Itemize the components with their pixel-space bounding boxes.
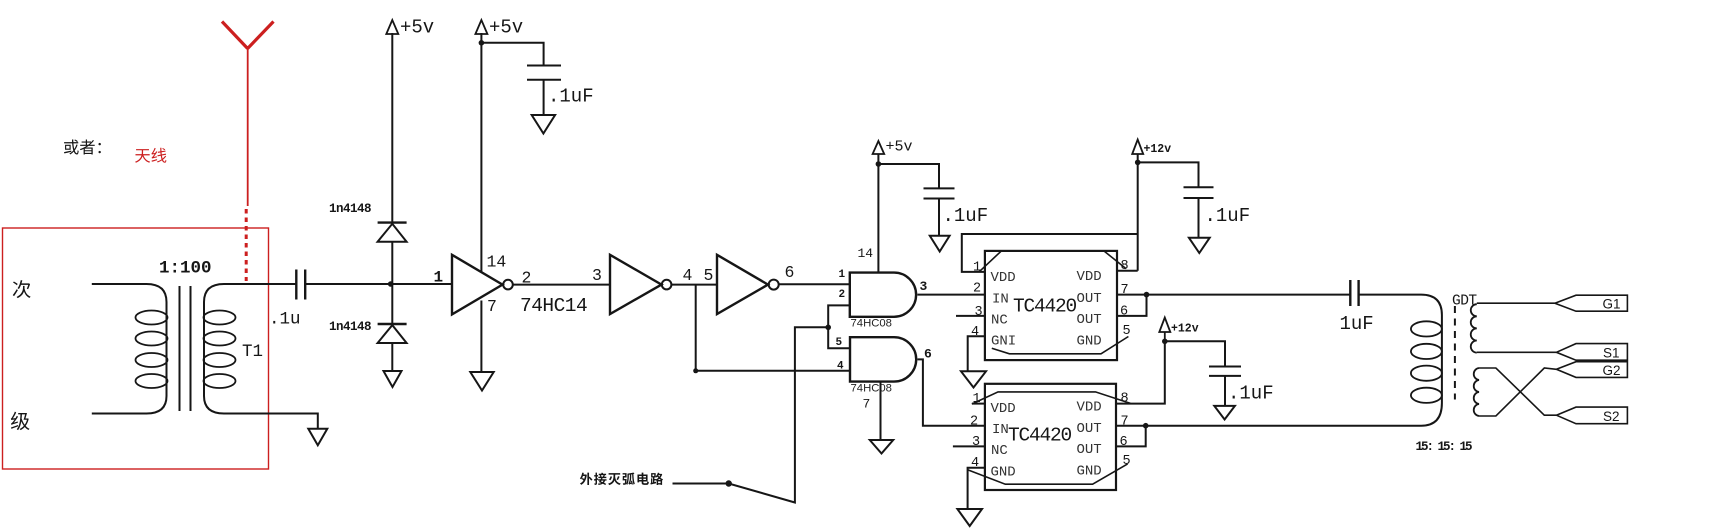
AND gate U2B 74HC08 (850, 337, 916, 381)
transformer T1 secondary-side wires (204, 284, 318, 429)
svg-text:15: 15: 15: 15: 15: 15 (1416, 440, 1473, 454)
svg-text:14: 14 (858, 246, 874, 261)
terminal flag S1 (1556, 344, 1627, 361)
svg-text:VDD: VDD (991, 401, 1016, 417)
wire sec1 top to G1 (1477, 302, 1555, 304)
svg-text:IN: IN (992, 292, 1009, 308)
svg-text:.1uF: .1uF (1228, 383, 1274, 405)
svg-text:+5v: +5v (886, 139, 913, 156)
decoupling cap .1uF (74HC08) (878, 164, 954, 236)
svg-text:5: 5 (836, 337, 843, 349)
svg-text:74HC08: 74HC08 (851, 383, 892, 395)
+5v supply 2 (475, 17, 523, 39)
wire +5v to diode D1 (391, 33, 393, 223)
svg-text:OUT: OUT (1077, 442, 1102, 458)
svg-text:IN: IN (992, 422, 1009, 438)
crossover wire sec2-bottom to G2 (1479, 368, 1556, 416)
svg-text:GDT: GDT (1452, 294, 1477, 310)
svg-text:2: 2 (970, 414, 978, 429)
terminal flag G2 (1556, 362, 1627, 378)
node at +12v (U3) (1135, 160, 1141, 166)
ground below 74HC14 (470, 372, 493, 391)
+12v supply 1 (1132, 140, 1171, 157)
ground below T1 (308, 429, 327, 446)
U3 top-right chamfer (1104, 251, 1126, 269)
svg-text:T1: T1 (242, 342, 263, 362)
svg-text:3: 3 (975, 305, 983, 320)
svg-text:.1uF: .1uF (548, 86, 594, 108)
junction dot at branch corner (693, 368, 698, 373)
svg-text:G2: G2 (1603, 363, 1621, 378)
ground below .1uF (532, 115, 555, 134)
node at +5v (AND) (876, 161, 882, 167)
crossover wire sec2-top to S2 (1479, 368, 1556, 415)
node junction at diodes (388, 281, 394, 287)
svg-text:TC4420: TC4420 (1013, 296, 1077, 318)
U4 pin8 wire to +12v (1116, 341, 1165, 403)
U4 pin numbers (970, 392, 1131, 472)
inverter U1A 74HC14 (452, 255, 513, 315)
svg-text:+12v: +12v (1171, 323, 1199, 336)
GDT secondary winding 2 (1474, 368, 1479, 416)
wire +5v to AND pin14 (877, 154, 879, 273)
wire node to inverter input (391, 283, 452, 285)
ground below D2 (384, 371, 402, 387)
terminal flag G1 (1555, 295, 1628, 311)
svg-text:+5v: +5v (400, 17, 434, 39)
inverter U1C (717, 255, 779, 314)
svg-text:1: 1 (973, 261, 981, 276)
GDT primary winding loops (1411, 321, 1442, 403)
U4 pin1 stub (972, 403, 985, 405)
wire cap to node (305, 283, 391, 285)
svg-text:4: 4 (683, 266, 693, 285)
svg-text:1n4148: 1n4148 (329, 202, 371, 216)
svg-text:2: 2 (973, 282, 981, 297)
svg-text:7: 7 (487, 297, 497, 316)
svg-text:NC: NC (991, 313, 1008, 329)
ground below AND gates (870, 440, 893, 454)
U4 bottom chamfer line (968, 464, 1128, 484)
svg-text:1uF: 1uF (1340, 313, 1374, 335)
ground below U4 pin4 (957, 509, 982, 526)
svg-text:3: 3 (920, 279, 928, 294)
U4 pin6 tie to pin7 (1116, 426, 1146, 447)
svg-text:7: 7 (1121, 283, 1129, 298)
U3 pin numbers (971, 259, 1131, 340)
svg-text:1: 1 (973, 392, 981, 407)
ground below .1uF (U4) (1214, 406, 1235, 420)
svg-text:1: 1 (434, 269, 444, 287)
svg-text:S2: S2 (1603, 409, 1620, 424)
svg-text:VDD: VDD (991, 270, 1016, 286)
+5v supply 1 (386, 17, 434, 39)
label 级 (11, 412, 30, 430)
wire inv2 to inv3 (671, 284, 717, 286)
wire branch to arc-quench circuit (673, 327, 829, 502)
GDT primary loop wire (1146, 295, 1442, 426)
U4 pin4 wire to ground (968, 468, 985, 509)
U3 bottom chamfer line (992, 337, 1129, 354)
U4 top chamfer line (972, 392, 1131, 404)
transformer T1 primary-side wires (92, 284, 167, 414)
wire inverter pin 7 to ground (480, 301, 482, 373)
svg-text:1:100: 1:100 (159, 259, 212, 279)
label 外接灭弧电路 (580, 472, 663, 485)
svg-text:OUT: OUT (1077, 312, 1102, 328)
wire inv3 to AND1 pin1 (779, 283, 850, 285)
svg-text:.1uF: .1uF (943, 205, 989, 227)
U3 pin3 stub (NC) (956, 315, 985, 317)
U3 pin name labels (991, 269, 1102, 350)
wire branch down to AND2 pin4 (696, 285, 850, 371)
label 或者: (64, 140, 101, 155)
decoupling cap .1uF (U3 +12v) (1138, 162, 1214, 237)
svg-text:TC4420: TC4420 (1008, 425, 1072, 447)
svg-text:6: 6 (924, 347, 932, 362)
secondary box (red rect) (3, 228, 269, 469)
svg-text:+5v: +5v (489, 17, 523, 39)
svg-text:GNI: GNI (991, 334, 1016, 350)
svg-text:GND: GND (991, 465, 1016, 481)
capacitor .1u (296, 270, 305, 300)
decoupling capacitor .1uF (74HC14) (481, 43, 561, 115)
svg-text:8: 8 (1121, 259, 1129, 274)
svg-text:GND: GND (1077, 334, 1102, 350)
node at +5v rail (479, 40, 485, 46)
terminal flag S2 (1556, 407, 1627, 424)
svg-text:GND: GND (1077, 464, 1102, 480)
driver U4 TC4420 body (985, 384, 1116, 490)
wire inv1 to inv2 (513, 284, 610, 286)
svg-text:7: 7 (1121, 414, 1129, 429)
decoupling cap .1uF (U4 +12v) (1165, 341, 1241, 406)
U3 pin7 stub (1117, 294, 1147, 296)
svg-text:4: 4 (837, 361, 844, 373)
junction dot on arc-quench wire (726, 480, 732, 486)
wire U3 out to 1uF cap (1147, 294, 1351, 296)
svg-text:G1: G1 (1603, 296, 1621, 311)
svg-text:14: 14 (487, 253, 507, 272)
wire sec1 bottom to S1 (1477, 351, 1557, 353)
svg-text:5: 5 (1123, 454, 1131, 469)
wire +5v rail to inverter pin 14 (480, 33, 482, 272)
driver U3 TC4420 body (985, 251, 1117, 360)
junction dot U4 outputs (1143, 423, 1149, 429)
ground below .1uF (U3) (1189, 238, 1210, 253)
svg-text:NC: NC (991, 443, 1008, 459)
svg-text:OUT: OUT (1077, 291, 1102, 307)
svg-text:4: 4 (971, 325, 979, 340)
U4 pin name labels (991, 400, 1102, 481)
wire AND1 pin2 to AND2 pin5 (828, 305, 850, 348)
svg-text:8: 8 (1121, 392, 1129, 407)
svg-text:.1u: .1u (269, 310, 301, 330)
junction dot U3 outputs (1144, 292, 1150, 298)
U4 pin3 stub (NC) (953, 445, 985, 447)
U3 pin1 stub and VDD rail (962, 234, 1138, 272)
svg-text:2: 2 (839, 289, 846, 301)
svg-text:+12v: +12v (1144, 143, 1172, 156)
transformer T1 left winding loops (136, 311, 168, 389)
svg-text:VDD: VDD (1077, 400, 1102, 416)
svg-text:5: 5 (704, 266, 714, 285)
label 天线 (red) (135, 148, 166, 163)
svg-text:5: 5 (1123, 324, 1131, 339)
svg-text:1n4148: 1n4148 (329, 320, 371, 334)
node at +12v (U4) (1162, 339, 1168, 345)
transformer T1 core (180, 286, 191, 411)
wire +12v down to U3 pin8 (1137, 154, 1139, 271)
AND gate U2A 74HC08 (850, 273, 916, 317)
svg-text:1: 1 (839, 269, 846, 281)
svg-text:6: 6 (1120, 435, 1128, 450)
+12v supply 2 (1159, 318, 1198, 342)
svg-text:6: 6 (785, 263, 795, 282)
svg-text:6: 6 (1120, 305, 1128, 320)
transformer T1 right winding loops (204, 311, 236, 389)
antenna dotted lead-in (red) (245, 209, 248, 281)
svg-text:VDD: VDD (1077, 269, 1102, 285)
ground below .1uF (74HC08) (930, 236, 950, 252)
diode D2 1n4148 (378, 284, 407, 371)
U4 pin7 stub (1116, 425, 1146, 427)
diode D1 1n4148 (378, 223, 407, 284)
GDT core dashed line (1454, 306, 1456, 400)
inverter U1B (610, 255, 671, 314)
GDT secondary winding 1 (1471, 304, 1477, 352)
U3 top-left chamfer (979, 251, 1001, 272)
wire AND1 output to U3 pin2 (917, 294, 985, 296)
svg-text:4: 4 (971, 456, 979, 471)
junction dot on pin2-pin5 link (825, 325, 831, 331)
ground below U3 pin4 (961, 371, 986, 387)
svg-text:3: 3 (592, 266, 602, 285)
coupling capacitor 1uF (1350, 280, 1358, 306)
svg-text:.1uF: .1uF (1205, 205, 1251, 227)
U3 pin6 tie to pin7 (1117, 295, 1147, 316)
svg-text:3: 3 (972, 435, 980, 450)
svg-text:74HC14: 74HC14 (520, 295, 587, 317)
svg-text:74HC08: 74HC08 (851, 318, 892, 330)
+5v supply 3 (873, 139, 913, 156)
svg-text:7: 7 (863, 397, 871, 412)
label 次 (13, 280, 31, 298)
U3 pin4 wire to ground (968, 336, 985, 371)
svg-text:S1: S1 (1603, 346, 1620, 361)
wire AND2 output to U4 pin2 (918, 359, 985, 425)
wire AND pin7 to ground (880, 382, 882, 440)
antenna (red) (222, 22, 274, 207)
U3 pin8 stub (1117, 270, 1138, 272)
svg-text:OUT: OUT (1077, 421, 1102, 437)
